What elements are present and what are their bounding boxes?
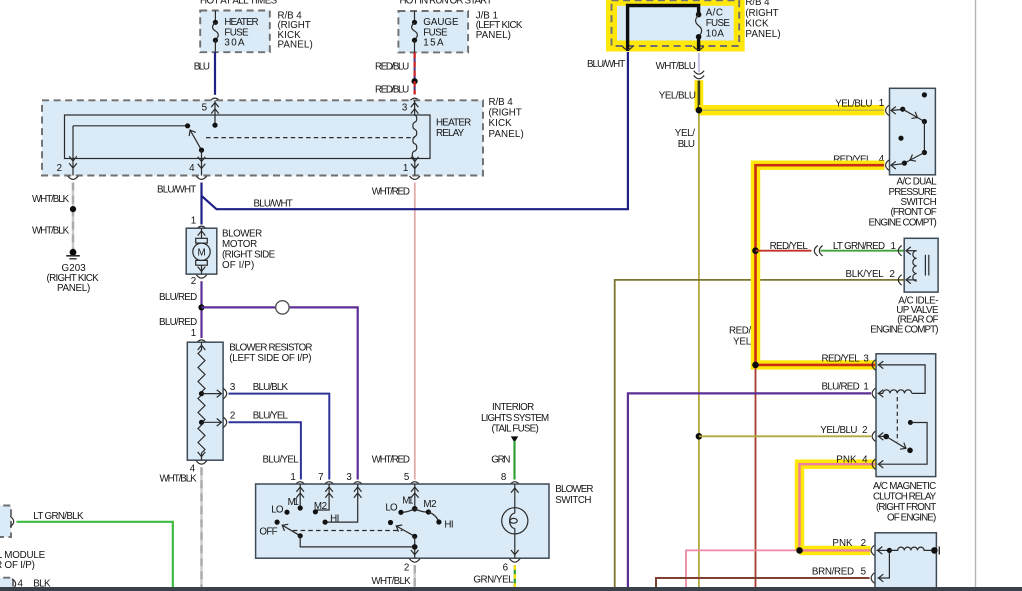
svg-text:BLU/WHT: BLU/WHT (157, 184, 196, 195)
svg-text:RED/: RED/ (729, 325, 751, 336)
switch lamp lead pin 6 (511, 528, 519, 558)
clutch relay pin 3 lead (878, 361, 926, 393)
wire YEL/BLU branch to clutch relay pin 2 (699, 435, 871, 437)
svg-text:YEL: YEL (733, 336, 752, 347)
svg-text:PNK: PNK (832, 538, 853, 549)
svg-text:4: 4 (189, 163, 195, 174)
svg-text:WHT/BLU: WHT/BLU (656, 61, 696, 72)
svg-text:8: 8 (501, 472, 507, 483)
svg-text:LT GRN/BLK: LT GRN/BLK (33, 511, 84, 522)
svg-text:5: 5 (202, 103, 208, 114)
relay actuator dashed link (206, 137, 415, 139)
curve M2 to HI right (428, 512, 441, 525)
svg-text:INTERIOR: INTERIOR (492, 402, 534, 413)
wire BLU/WHT relay pin4 to blower motor (200, 183, 202, 225)
connector at module 2 (12, 579, 15, 589)
junction dot YEL/BLU at clutch relay branch (696, 433, 703, 440)
connector at switch pin 3 (353, 482, 363, 485)
connector at compressor pin 5 (871, 573, 874, 583)
inline connector WHT/BLU to YEL/BLU (694, 71, 704, 79)
svg-text:M2: M2 (314, 501, 327, 512)
label R/B 4 (RIGHT KICK PANEL) top right (745, 0, 780, 40)
switch illumination lamp (502, 508, 528, 534)
svg-text:15A: 15A (423, 38, 444, 49)
svg-text:ENGINE COMPT): ENGINE COMPT) (870, 324, 938, 335)
idle-up valve coil (906, 247, 929, 284)
svg-text:1: 1 (863, 381, 868, 392)
label A/C DUAL PRESSURE SWITCH (FRONT OF ENGINE COMPT) (869, 177, 938, 229)
svg-text:BLU/BLK: BLU/BLK (253, 382, 289, 393)
connector at motor pin 2 (196, 275, 206, 278)
switch contact LO left (284, 510, 289, 515)
ground bus bar (0, 587, 1022, 591)
svg-text:BLU/RED: BLU/RED (159, 317, 197, 328)
connector at clutch relay pin 4 (872, 459, 875, 469)
svg-text:PANEL): PANEL) (278, 40, 313, 51)
highlighted feed wire in A/C fuse box (628, 6, 699, 52)
switch arm left to common rail (300, 536, 415, 547)
right page border (975, 0, 977, 588)
svg-text:M2: M2 (423, 499, 436, 510)
wire WHT/BLK switch pin 2 to ground bus (414, 565, 416, 587)
connector at switch pin 2 (410, 559, 420, 562)
svg-text:BLOWER: BLOWER (222, 229, 262, 240)
compressor pin 5 lead (878, 553, 890, 582)
connector at pressure switch pin 1 (886, 105, 889, 115)
switch arm left (280, 522, 303, 538)
relay pin 2 lead (69, 126, 77, 176)
label HEATER FUSE 30A (224, 17, 258, 48)
label J/B 1 (LEFT KICK PANEL) (476, 11, 523, 41)
wire BLU/RED motor to resistor (200, 281, 202, 338)
compressor thermal protector (877, 547, 940, 555)
wire GRN to switch pin 8 (513, 441, 515, 480)
svg-text:WHT/BLK: WHT/BLK (32, 194, 70, 205)
svg-text:LO: LO (271, 504, 284, 515)
svg-text:BLU: BLU (194, 61, 210, 72)
connector at clutch relay pin 2 (872, 431, 875, 441)
label BLOWER RESISTOR (LEFT SIDE OF I/P) (229, 343, 312, 364)
svg-text:5: 5 (861, 567, 867, 578)
svg-text:LT GRN/RED: LT GRN/RED (833, 241, 885, 252)
junction dot RED/YEL at clutch relay corner (752, 362, 759, 369)
connector at pressure switch pin 4 (886, 160, 889, 170)
heater relay box (42, 100, 483, 175)
junction dot RED/YEL idle-up branch (752, 247, 759, 254)
gauge fuse 15A symbol (412, 11, 418, 52)
label A/C IDLE-UP VALVE (REAR OF ENGINE COMPT) (870, 295, 939, 335)
svg-text:BLK/YEL: BLK/YEL (846, 269, 885, 280)
svg-text:(RIGHT FRONT: (RIGHT FRONT (876, 502, 936, 513)
label A/C FUSE 10A (706, 8, 731, 40)
svg-text:(RIGHT: (RIGHT (745, 8, 778, 19)
svg-text:BLU/YEL: BLU/YEL (263, 455, 300, 466)
connector at idle-up valve pin 1 (898, 246, 901, 256)
fuse box R/B 4 heater fuse (200, 11, 270, 53)
connector at relay pin 5 (210, 98, 220, 101)
curve node to M2 right (415, 509, 431, 515)
svg-text:(TAIL FUSE): (TAIL FUSE) (492, 424, 539, 435)
connector at switch pin 7 (324, 482, 334, 485)
label R/B 4 (RIGHT KICK PANEL) beside relay (489, 97, 524, 140)
switch pin 7 lead to M2 contact (313, 484, 333, 514)
wire YEL/BLU highlighted to pressure switch pin 1 (699, 105, 885, 115)
svg-text:RED/BLU: RED/BLU (375, 85, 409, 96)
svg-text:5: 5 (404, 472, 410, 483)
svg-text:OF ENGINE): OF ENGINE) (887, 512, 936, 523)
relay pin 3 lead (411, 100, 419, 115)
connector at switch pin 8 (510, 482, 520, 485)
connector at resistor pin 1 (196, 340, 206, 343)
fuse box J/B 1 gauge fuse (398, 11, 468, 52)
pressure switch internals (891, 92, 927, 169)
svg-text:HOT IN RUN OR START: HOT IN RUN OR START (400, 0, 493, 7)
svg-text:HOT AT ALL TIMES: HOT AT ALL TIMES (200, 0, 278, 7)
svg-text:GRN/YEL: GRN/YEL (473, 575, 514, 586)
svg-text:1: 1 (191, 216, 196, 227)
wire BLU/WHT branch to A/C fuse (202, 52, 628, 209)
svg-text:R/B 4: R/B 4 (745, 0, 770, 8)
svg-text:3: 3 (230, 382, 236, 393)
svg-text:GRN: GRN (491, 454, 510, 465)
switch pin 3 lead to HI contact (323, 484, 362, 525)
connector at module output (10, 516, 13, 526)
svg-text:HI: HI (444, 519, 453, 530)
wire PNK plain from bottom left (686, 550, 796, 587)
svg-text:PANEL): PANEL) (489, 129, 524, 140)
wire YEL/BLU highlighted vertical (695, 80, 704, 110)
heater relay inner frame (65, 115, 431, 159)
clutch relay upper contact to pin 4 (878, 420, 928, 468)
svg-text:OFF: OFF (259, 526, 277, 537)
wire BLK/YEL idle-up valve pin 2 (615, 280, 905, 587)
switch arm right to pin 2 (411, 536, 419, 558)
wire LT GRN/RED to idle-up valve pin 1 (821, 250, 905, 252)
svg-text:R/B 4: R/B 4 (489, 97, 514, 108)
svg-text:M1: M1 (288, 497, 299, 508)
svg-text:6: 6 (503, 562, 509, 573)
svg-text:BLU: BLU (678, 139, 695, 150)
svg-text:(REAR OF I/P): (REAR OF I/P) (0, 560, 35, 571)
connector at motor pin 1 (196, 226, 206, 229)
svg-text:WHT/RED: WHT/RED (372, 186, 410, 197)
wire YEL/BLU thin vertical to bottom (698, 114, 700, 588)
connector at relay pin 3 (409, 98, 419, 101)
clutch relay actuator dashed link (896, 397, 898, 442)
junction dot PNK (796, 547, 803, 554)
svg-text:(LEFT SIDE OF I/P): (LEFT SIDE OF I/P) (229, 353, 311, 364)
svg-text:BRN/RED: BRN/RED (812, 567, 854, 578)
junction dot WHT/BLK (70, 206, 76, 212)
blower motor symbol (193, 228, 210, 274)
A/C dual pressure switch box (890, 88, 936, 175)
svg-text:ENGINE COMPT): ENGINE COMPT) (869, 217, 937, 228)
svg-text:2: 2 (404, 562, 409, 573)
connector under relay pin 2 (68, 176, 78, 179)
wire BLU/BLK resistor to switch pin 7 (229, 394, 330, 480)
svg-text:3: 3 (402, 103, 408, 114)
clutch relay coil (878, 390, 912, 398)
resistor tap 3 (199, 390, 222, 398)
wire BLU/YEL resistor to switch pin 1 (229, 422, 301, 479)
heater fuse 30A symbol (213, 11, 219, 53)
wire BLU/RED to clutch relay pin 1 (628, 393, 871, 587)
connector at compressor pin 2 (871, 545, 874, 555)
svg-text:WHT/BLK: WHT/BLK (160, 474, 198, 485)
svg-text:YEL/BLU: YEL/BLU (835, 99, 872, 110)
svg-text:CLUTCH RELAY: CLUTCH RELAY (873, 491, 937, 502)
A/C fuse 10A symbol (696, 12, 702, 51)
connector at resistor pin 3 (223, 388, 226, 398)
splice ring on BLU/RED branch (276, 301, 289, 314)
svg-text:PANEL): PANEL) (476, 30, 511, 41)
label R/B 4 (RIGHT KICK PANEL) (278, 11, 313, 51)
svg-text:SWITCH: SWITCH (555, 495, 591, 506)
control module dashed box (0, 506, 11, 538)
svg-text:A/C: A/C (706, 8, 723, 19)
svg-text:2: 2 (191, 276, 196, 287)
wire GRN/YEL switch pin 6 to ground bus (514, 565, 516, 587)
label GAUGE FUSE 15A (423, 17, 459, 48)
svg-text:BLU/RED: BLU/RED (822, 381, 860, 392)
svg-text:4: 4 (862, 454, 868, 465)
inline connector RED/YEL to LT GRN/RED (814, 246, 822, 256)
wire LT GRN/BLK module to ground bus (17, 522, 173, 587)
wire PNK highlighted to compressor pin 2 (800, 546, 871, 555)
label BLOWER SWITCH (555, 484, 593, 506)
svg-text:BLOWER: BLOWER (555, 484, 593, 495)
svg-text:RELAY: RELAY (436, 128, 465, 139)
svg-text:10A: 10A (706, 29, 725, 40)
wire WHT/RED relay pin1 to blower switch pin 5 (414, 183, 416, 480)
svg-text:2: 2 (862, 425, 867, 436)
svg-text:FUSE: FUSE (706, 18, 731, 29)
svg-text:(RIGHT: (RIGHT (489, 108, 522, 119)
switch pin 1 lead to M1 contact (296, 484, 304, 511)
svg-text:KICK: KICK (489, 118, 513, 129)
svg-text:KICK: KICK (745, 18, 769, 29)
wire RED/BLU to relay pin 3 (414, 81, 416, 94)
svg-text:1: 1 (891, 241, 896, 252)
switch lamp lead pin 8 (511, 484, 519, 513)
label A/C MAGNETIC CLUTCH RELAY (RIGHT FRONT OF ENGINE) (873, 481, 937, 524)
clutch relay switch arm (886, 437, 913, 454)
wire WHT/BLU fuse to connector (698, 53, 700, 72)
blower switch box (256, 484, 549, 558)
connector at idle-up valve pin 2 (898, 275, 901, 285)
connector at switch pin 6 (510, 559, 520, 562)
svg-text:7: 7 (318, 472, 323, 483)
svg-text:OF I/P): OF I/P) (222, 260, 254, 271)
A/C compressor box (875, 533, 936, 589)
resistor element (198, 342, 206, 460)
label G203 (RIGHT KICK PANEL) (47, 263, 100, 294)
clutch relay pin 2 lead (878, 433, 890, 441)
wire PNK highlighted clutch relay pin 4 (800, 464, 877, 550)
svg-text:A/C MAGNETIC: A/C MAGNETIC (873, 481, 936, 492)
svg-text:PANEL): PANEL) (57, 283, 90, 294)
svg-text:PANEL): PANEL) (745, 29, 780, 40)
connector at clutch relay pin 3 (872, 360, 875, 370)
switch contact OFF left (275, 520, 280, 525)
wire RED/YEL branch to inline connector (756, 250, 812, 252)
blower resistor box (187, 342, 223, 460)
relay coil (412, 115, 416, 159)
svg-text:1: 1 (191, 328, 196, 339)
svg-text:BLOWER RESISTOR: BLOWER RESISTOR (229, 343, 312, 354)
curve node to LO right (398, 509, 414, 515)
switch contact right arm target (388, 520, 393, 525)
wire BLU fuse to relay pin 5 (214, 52, 216, 95)
arrow from interior lights system (511, 436, 518, 442)
svg-text:3: 3 (863, 353, 869, 364)
relay switch arm (187, 128, 204, 152)
svg-text:2: 2 (57, 163, 62, 174)
svg-text:1: 1 (403, 163, 408, 174)
resistor tap 2 (199, 419, 222, 427)
connector under A/C fuse box left (622, 46, 632, 49)
connector at switch pin 1 (295, 482, 305, 485)
svg-text:HI: HI (330, 513, 339, 524)
label RED/ YEL vertical (729, 325, 752, 347)
svg-text:WHT/BLK: WHT/BLK (32, 225, 70, 236)
svg-text:BLU/WHT: BLU/WHT (587, 59, 625, 70)
wire WHT/BLK resistor to ground bus (200, 467, 202, 587)
svg-text:WHT/RED: WHT/RED (372, 454, 410, 465)
gang dashed link (293, 530, 402, 532)
wire BLU/RED branch to switch pin 3 (202, 307, 358, 479)
junction dot YEL/BLU (696, 107, 703, 114)
connector at resistor pin 4 (196, 461, 206, 464)
wire WHT/BLK relay pin2 to ground (72, 183, 74, 253)
label INTERIOR LIGHTS SYSTEM (TAIL FUSE) (481, 402, 549, 434)
connector under relay pin 4 (196, 176, 206, 179)
svg-text:3: 3 (346, 472, 352, 483)
svg-text:2: 2 (230, 411, 235, 422)
blower motor box (186, 228, 217, 274)
svg-text:BLU/YEL: BLU/YEL (253, 411, 289, 422)
A/C fuse box highlight (612, 0, 740, 46)
label YEL/ BLU vertical (675, 128, 695, 150)
wire RED/BLU gauge fuse down (414, 52, 416, 81)
svg-text:YEL/BLU: YEL/BLU (659, 91, 696, 102)
switch arm right (394, 523, 417, 539)
module 2 dashed box (0, 578, 13, 591)
svg-text:1: 1 (290, 472, 295, 483)
A/C magnetic clutch relay box (876, 354, 936, 477)
connector at clutch relay pin 1 (872, 388, 875, 398)
A/C idle-up valve box (904, 238, 938, 292)
svg-text:1: 1 (879, 98, 884, 109)
junction dot RED/BLU (412, 78, 418, 84)
relay switch common line (73, 123, 190, 128)
svg-text:2: 2 (861, 538, 866, 549)
switch pin 5 lead to M1 node (411, 484, 419, 512)
svg-text:RED/YEL: RED/YEL (822, 353, 861, 364)
connector at switch pin 5 (410, 482, 420, 485)
connector under A/C fuse box right (693, 46, 703, 49)
svg-text:(RIGHT SIDE: (RIGHT SIDE (222, 250, 276, 261)
svg-text:RED/YEL: RED/YEL (770, 241, 809, 252)
relay pin 1 lead (411, 157, 419, 176)
svg-text:YEL/BLU: YEL/BLU (820, 425, 857, 436)
svg-text:M: M (198, 248, 206, 259)
svg-text:RED/BLU: RED/BLU (375, 62, 409, 73)
wire BRN/RED to compressor pin 5 (656, 578, 870, 587)
wire RED/YEL thin vertical to bottom (755, 368, 757, 587)
svg-text:MOTOR: MOTOR (222, 239, 257, 250)
ground G203 (66, 249, 80, 259)
svg-text:M1: M1 (402, 496, 413, 507)
label HEATER RELAY (436, 118, 471, 140)
svg-text:WHT/BLK: WHT/BLK (372, 576, 412, 587)
svg-text:HEATER: HEATER (436, 118, 471, 129)
svg-text:LIGHTS SYSTEM: LIGHTS SYSTEM (481, 413, 549, 424)
svg-text:2: 2 (890, 269, 895, 280)
svg-text:BLU/WHT: BLU/WHT (254, 198, 293, 209)
label BLOWER MOTOR (RIGHT SIDE OF I/P) (222, 229, 276, 271)
svg-text:PNK: PNK (836, 454, 857, 465)
A/C fuse box R/B 4 (612, 0, 740, 46)
svg-text:30A: 30A (224, 38, 245, 49)
connector under relay pin 1 (410, 176, 420, 179)
svg-text:YEL/: YEL/ (675, 128, 695, 139)
wire RED/YEL highlighted pressure switch to clutch relay pin 3 (756, 165, 885, 365)
svg-text:BLU/RED: BLU/RED (159, 292, 197, 303)
relay pin 4 lead (198, 150, 206, 175)
relay pin 5 lead (211, 100, 219, 127)
svg-text:LO: LO (385, 502, 398, 513)
connector at resistor pin 2 (223, 417, 226, 427)
junction dot BLU/RED (198, 304, 204, 310)
